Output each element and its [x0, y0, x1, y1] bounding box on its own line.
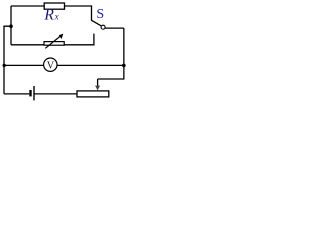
slider arrow shaft	[97, 79, 99, 86]
svg-text:V: V	[47, 60, 55, 71]
wire voltmeter to right rail	[57, 64, 124, 66]
switch pivot circle	[101, 25, 105, 29]
rheostat (slider) box	[77, 91, 109, 97]
battery long plate (+)	[33, 86, 35, 100]
wire resistor to switch corner	[65, 6, 92, 21]
rheostat arrowhead	[59, 34, 64, 39]
left rail	[4, 26, 11, 94]
junction dot left	[2, 64, 5, 67]
wire node A to rheostat R'	[11, 44, 44, 46]
battery short plate (-)	[29, 90, 31, 96]
junction dot right	[122, 64, 126, 68]
voltmeter circle	[44, 58, 57, 71]
svg-text:R: R	[43, 7, 54, 24]
resistor R_x box	[44, 3, 64, 9]
wire battery to left rail	[4, 93, 29, 95]
rheostat R' box	[44, 42, 64, 46]
right rail	[123, 28, 125, 79]
wire battery to rheostat box	[35, 93, 78, 95]
wire top from node A corner to resistor R_x	[11, 5, 44, 7]
svg-text:x: x	[54, 12, 59, 22]
switch S blade	[91, 20, 101, 26]
slider arrowhead	[95, 86, 100, 91]
wire left rail to voltmeter	[4, 64, 44, 66]
vertical branch wire through node A	[10, 6, 12, 45]
wire rail to slider arm	[98, 78, 125, 80]
rheostat arrow	[45, 35, 61, 48]
node A junction dot	[9, 24, 13, 28]
svg-text:S: S	[96, 7, 104, 22]
wire switch to right rail	[105, 27, 124, 29]
wire rheostat to switch lower contact	[64, 34, 94, 45]
